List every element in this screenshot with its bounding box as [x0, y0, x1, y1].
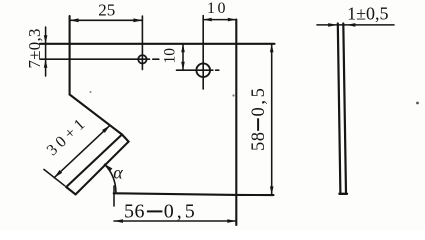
arrow 56 left [114, 219, 123, 223]
svg-text:10: 10 [207, 0, 228, 17]
dimension 10 top: line [203, 19, 236, 21]
svg-text:25: 25 [98, 0, 115, 19]
hole H2 horizontal centerline [177, 69, 213, 71]
arrow 10top right [228, 18, 237, 22]
arrow 56 right [227, 219, 236, 223]
arrow 7 upper (outside, pointing down) [44, 35, 48, 44]
arrow 7 lower (outside, pointing up) [44, 59, 48, 67]
arrow 25 left [70, 18, 79, 22]
bottom edge of plate with right extension [114, 193, 274, 195]
arrow 10top left [203, 18, 212, 22]
scan speck 3 [90, 91, 92, 93]
angle alpha arc [105, 164, 116, 192]
dimension 56-0,5: left extension [113, 186, 115, 206]
hole H2 vertical centerline [202, 16, 204, 90]
svg-text:7±0,3: 7±0,3 [25, 28, 44, 68]
hole H1 horizontal centerline (also 7±0,3 extension) [40, 58, 150, 60]
hole H2 [196, 63, 210, 77]
svg-text:30+1: 30+1 [44, 113, 91, 159]
dimension 25: line [70, 19, 143, 21]
dimension 1±0,5: line [317, 24, 394, 26]
left edge of plate (and 25-dim extension above) [69, 16, 71, 95]
hole H1 [138, 55, 146, 63]
tab end edge bottom-left [66, 187, 75, 194]
hole H2 centerline dash right [216, 69, 219, 71]
hole H1 vertical centerline [141, 16, 143, 70]
hole H1 centerline dash right [153, 58, 159, 60]
right edge of plate with extensions up and down [235, 20, 237, 225]
scan speck [416, 102, 419, 105]
notch upper diagonal (bend line A) [70, 95, 122, 135]
arrow 10vert top [181, 44, 185, 53]
side view right edge [343, 24, 346, 194]
dimension 58-0,5: line [271, 44, 273, 195]
dimension 56-0,5: line [114, 220, 236, 222]
svg-text:56: 56 [124, 201, 145, 223]
dimension 30+1: extension of tab end edge [44, 169, 65, 185]
arrow 30+1 lower [54, 170, 62, 178]
tab lower edge [76, 142, 129, 195]
tab end edge top-right [122, 135, 129, 142]
tab upper edge [66, 135, 122, 188]
arrow 10vert bottom [181, 62, 185, 70]
dimension 7±0,3: line with outside tails [45, 27, 47, 76]
label 56-0,5 [124, 201, 198, 223]
arrow 58 bottom [270, 186, 274, 195]
svg-text:58: 58 [249, 132, 269, 152]
svg-text:1±0,5: 1±0,5 [347, 4, 388, 24]
arrow 1±0,5 left (pointing right) [328, 23, 337, 27]
dimension 30+1: line [54, 125, 110, 177]
scan speck 2 [232, 94, 234, 96]
arrow 25 right [133, 18, 142, 22]
arrow alpha arc [104, 164, 112, 172]
svg-text:α: α [113, 163, 123, 183]
side view bottom cap [339, 193, 347, 195]
svg-text:0,5: 0,5 [164, 201, 198, 223]
svg-text:10: 10 [162, 48, 179, 64]
side view left edge [338, 24, 341, 194]
dimension 10 vertical: line [182, 44, 184, 70]
arrow 1±0,5 right (pointing left) [346, 23, 355, 27]
label 58-0,5 [249, 86, 269, 151]
arrow 30+1 upper [102, 125, 110, 133]
svg-text:0,5: 0,5 [249, 86, 269, 117]
arrow 58 top [270, 44, 274, 53]
top edge of plate with extension lines [40, 43, 275, 45]
